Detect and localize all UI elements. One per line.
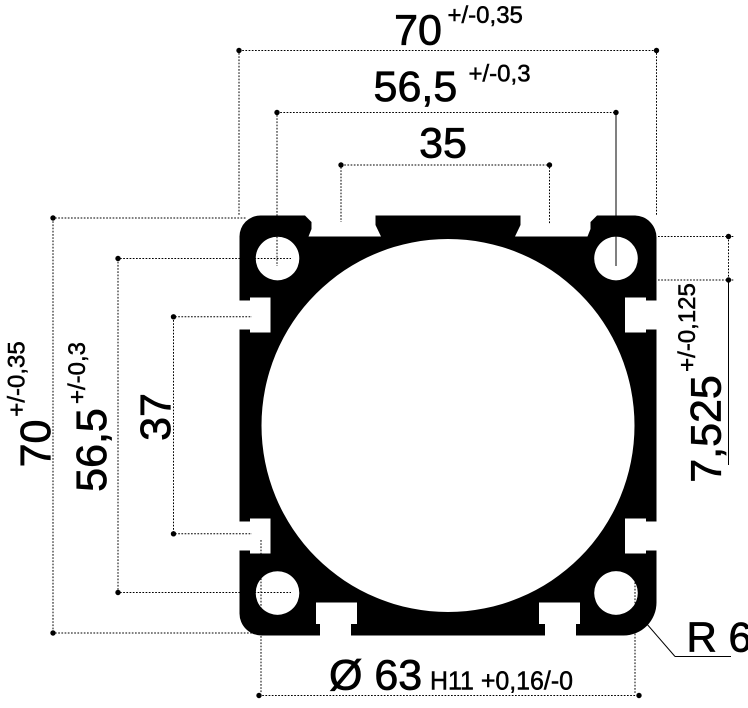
dimension 56,5 +/-0,3 left: dim line + extension lines xyxy=(118,259,291,593)
dimension diameter 63 H11 bottom: dim line + extension lines xyxy=(259,540,639,696)
svg-text:+/-0,125: +/-0,125 xyxy=(674,283,701,372)
svg-text:7,525: 7,525 xyxy=(683,375,731,483)
T-slot lips right edge xyxy=(646,298,657,554)
svg-text:+/-0,3: +/-0,3 xyxy=(64,342,91,404)
svg-text:56,5: 56,5 xyxy=(374,63,458,111)
dimension 7,525 +/-0,125 right: dim line + extension lines xyxy=(658,237,734,281)
svg-text:56,5: 56,5 xyxy=(68,408,116,492)
leader line R6 xyxy=(646,623,675,657)
svg-text:R 6: R 6 xyxy=(687,614,748,661)
svg-text:35: 35 xyxy=(419,120,467,168)
profile body: 70x70 aluminium cylinder profile cross-section with diameter-63 bore and 4 corner screw holes xyxy=(240,216,657,636)
dimension 56,5 +/-0,3 top: dim line + extension lines xyxy=(277,112,616,114)
svg-text:H11 +0,16/-0: H11 +0,16/-0 xyxy=(430,666,573,696)
T-slot lips left edge xyxy=(240,298,251,554)
svg-text:Ø 63: Ø 63 xyxy=(329,652,422,700)
svg-text:+/-0,3: +/-0,3 xyxy=(469,61,531,88)
dimension 35 top: dim line + extension lines xyxy=(341,165,550,224)
dimension 70 +/-0,35 top: dim line + extension lines xyxy=(239,51,657,216)
dimension 37 left: dim line + extension lines xyxy=(174,317,253,534)
svg-text:70: 70 xyxy=(12,420,60,468)
svg-text:+/-0,35: +/-0,35 xyxy=(3,341,30,416)
dimension 7,525 tail line xyxy=(728,280,730,465)
svg-text:+/-0,35: +/-0,35 xyxy=(448,2,523,29)
svg-text:70: 70 xyxy=(394,7,442,55)
dimension 70 +/-0,35 left: dim line + extension lines xyxy=(53,218,252,633)
svg-text:37: 37 xyxy=(132,393,180,441)
